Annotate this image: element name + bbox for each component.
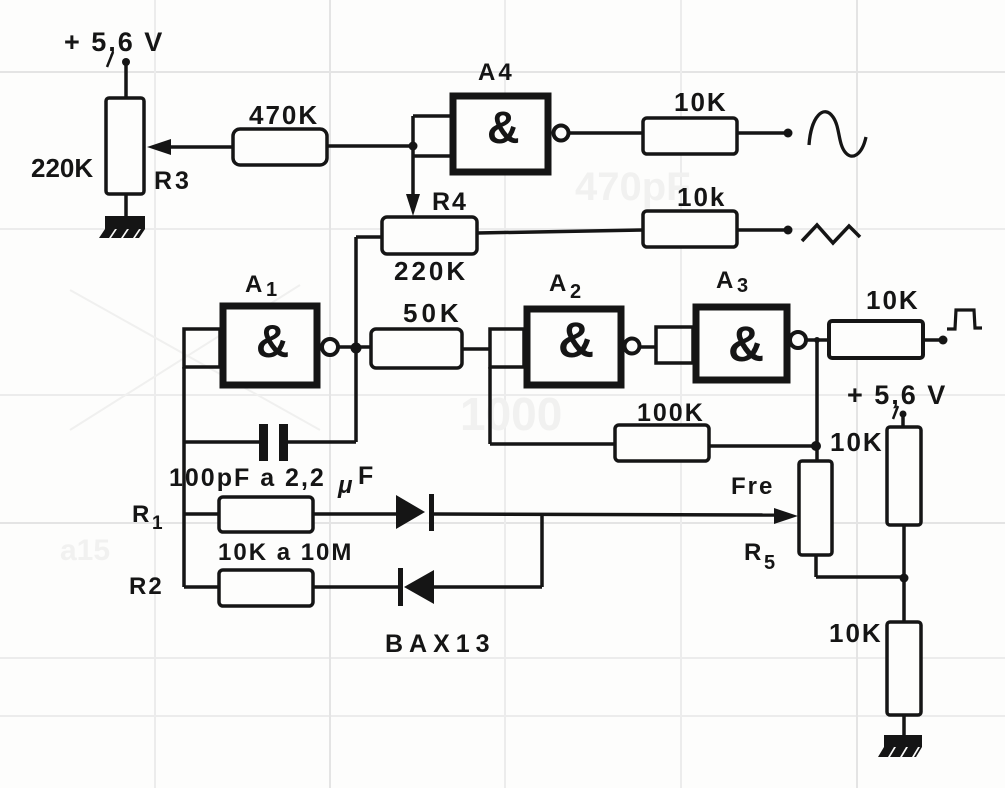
svg-text:10K: 10K bbox=[866, 285, 920, 315]
svg-text:&: & bbox=[728, 316, 764, 372]
svg-text:&: & bbox=[256, 315, 289, 367]
svg-text:10K: 10K bbox=[830, 427, 884, 457]
svg-text:+ 5,6 V: + 5,6 V bbox=[847, 380, 947, 410]
svg-text:A: A bbox=[245, 271, 262, 298]
svg-text:μ: μ bbox=[337, 472, 353, 499]
svg-text:100K: 100K bbox=[637, 399, 705, 427]
svg-text:2: 2 bbox=[570, 281, 581, 303]
svg-text:10K: 10K bbox=[829, 618, 883, 648]
svg-text:10k: 10k bbox=[677, 182, 726, 212]
svg-text:5: 5 bbox=[764, 552, 775, 574]
svg-text:1: 1 bbox=[152, 513, 163, 534]
svg-text:a15: a15 bbox=[60, 534, 110, 567]
svg-text:R: R bbox=[744, 539, 761, 566]
svg-text:&: & bbox=[487, 102, 520, 153]
svg-text:R3: R3 bbox=[154, 167, 192, 195]
svg-text:220K: 220K bbox=[31, 153, 93, 183]
svg-text:220K: 220K bbox=[394, 256, 468, 286]
svg-text:1: 1 bbox=[266, 279, 277, 301]
svg-text:10K: 10K bbox=[674, 87, 728, 117]
svg-text:R4: R4 bbox=[432, 188, 468, 216]
svg-text:Fre: Fre bbox=[731, 473, 774, 500]
svg-text:3: 3 bbox=[737, 275, 748, 297]
svg-text:+ 5,6 V: + 5,6 V bbox=[64, 27, 164, 57]
svg-text:A: A bbox=[549, 270, 566, 297]
svg-text:F: F bbox=[358, 462, 373, 490]
svg-text:10K a 10M: 10K a 10M bbox=[218, 539, 353, 566]
svg-text:R: R bbox=[132, 501, 149, 528]
svg-text:A: A bbox=[716, 267, 733, 294]
svg-text:R2: R2 bbox=[129, 573, 164, 600]
svg-text:&: & bbox=[558, 312, 594, 368]
svg-text:1000: 1000 bbox=[460, 388, 562, 440]
svg-text:470K: 470K bbox=[249, 100, 319, 130]
svg-text:470pF: 470pF bbox=[575, 165, 691, 209]
svg-text:BAX13: BAX13 bbox=[385, 630, 496, 658]
svg-text:100pF a 2,2: 100pF a 2,2 bbox=[169, 464, 326, 492]
svg-text:A4: A4 bbox=[478, 59, 515, 86]
svg-text:50K: 50K bbox=[403, 298, 463, 328]
